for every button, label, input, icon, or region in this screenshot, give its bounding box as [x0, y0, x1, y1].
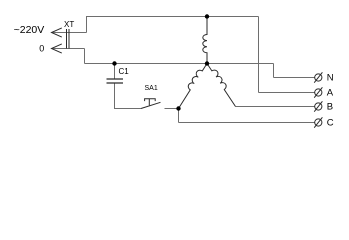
svg-text:0: 0: [39, 44, 44, 54]
wire neutral 0 input through XT: [51, 48, 84, 50]
terminal A circle: [314, 87, 322, 97]
winding M3 (right diagonal): [207, 64, 236, 107]
wire C1 top lead: [114, 64, 116, 80]
winding M2 (left diagonal): [179, 64, 208, 109]
svg-text:C1: C1: [119, 67, 130, 76]
terminal B circle: [314, 101, 322, 111]
junction dot C1 / mid rail: [112, 61, 116, 65]
svg-text:~220V: ~220V: [14, 24, 45, 36]
winding M1 (vertical): [203, 17, 207, 64]
svg-text:C: C: [327, 118, 334, 129]
svg-text:SA1: SA1: [145, 85, 158, 92]
terminal N circle: [314, 72, 322, 82]
wire mid rail (neutral bus): [85, 63, 274, 65]
wire drop to N line: [273, 64, 275, 78]
wire B output line: [236, 106, 315, 108]
svg-text:XT: XT: [64, 20, 74, 29]
wire SA1 right lead: [165, 108, 179, 110]
wire drop from node to C line: [178, 109, 180, 123]
terminal C circle: [314, 117, 322, 127]
wire N output line: [274, 77, 315, 79]
terminal block XT: [67, 29, 70, 49]
svg-text:B: B: [327, 102, 333, 113]
capacitor C1 plates: [107, 79, 124, 83]
switch SA1: [141, 99, 161, 109]
wire C1 bottom lead to SA1: [115, 83, 142, 109]
wire drop from 0 wire to mid rail: [84, 49, 86, 64]
arrow phase input: [52, 28, 62, 37]
junction dot top rail / M1: [205, 14, 209, 18]
arrow neutral input: [52, 44, 62, 53]
wire phase input through XT: [51, 32, 86, 34]
junction dot star point: [205, 61, 209, 65]
wire A output line: [259, 92, 315, 94]
svg-text:A: A: [327, 88, 334, 99]
wire drop from top rail to A line: [258, 17, 260, 93]
junction dot M2 / SA1 / C line: [176, 106, 180, 110]
svg-text:N: N: [327, 73, 334, 84]
wire top rail: [86, 16, 259, 18]
wire riser from XT phase wire to top rail: [86, 17, 88, 33]
wire C output line: [179, 122, 315, 124]
